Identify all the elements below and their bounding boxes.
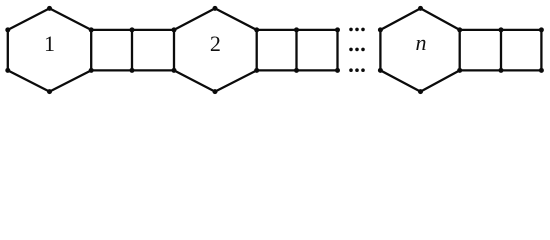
hexagon n outline	[380, 8, 459, 91]
svg-text:n: n	[416, 30, 427, 55]
svg-text:2: 2	[210, 31, 221, 56]
square pair 2 (after hexagon 2)	[257, 30, 338, 71]
ellipsis dots bottom row	[349, 68, 365, 72]
square pair 3 (after hexagon n)	[460, 30, 542, 71]
vertex dots hexagon n	[378, 6, 462, 94]
svg-text:1: 1	[44, 31, 55, 56]
square pair 1 (between hexagon 1 and hexagon 2)	[91, 30, 174, 71]
label 2 (hexagon 2)	[210, 31, 221, 56]
ellipsis dots top row	[349, 28, 365, 32]
hexagon 2 outline	[174, 8, 257, 91]
vertex dots square pair 1	[130, 27, 177, 73]
label 1 (hexagon 1)	[44, 31, 55, 56]
vertex dots hexagon 2	[213, 6, 260, 94]
ellipsis dots middle row	[349, 48, 365, 52]
hexagon 1 outline	[8, 8, 91, 91]
label n (hexagon n)	[416, 30, 427, 55]
vertex dots square pair 2	[294, 27, 340, 73]
vertex dots hexagon 1	[5, 6, 93, 94]
vertex dots square pair 3	[499, 27, 544, 73]
